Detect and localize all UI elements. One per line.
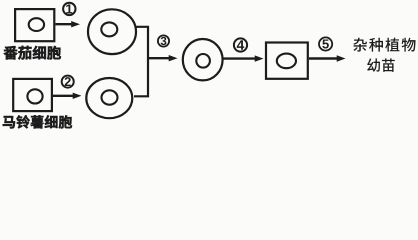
nucleus of fused cell [196,54,210,68]
nucleus of tomato protoplast [101,22,117,36]
fused cell (hybrid protoplast) [183,39,223,80]
step label ③ [158,35,169,46]
arrow ③ induce fusion [148,55,178,61]
box: regenerated hybrid cell [266,43,308,79]
label: hybrid plant 杂种植物 [353,38,415,52]
label: tomato cell 番茄细胞 [4,46,61,60]
protoplast (potato) [86,78,132,118]
label: potato cell 马铃薯细胞 [3,115,72,128]
arrow ⑤ tissue culture [309,55,346,61]
step label ② [62,76,74,88]
label: seedling 幼苗 [367,58,395,72]
nucleus of tomato cell [29,18,44,31]
arrow ① remove cell wall (tomato) [56,21,81,27]
diagram: plant somatic hybridization (tomato x potato) [0,0,418,137]
arrow ④ regenerate cell wall [223,55,264,61]
step label ⑤ [319,37,332,50]
nucleus of potato protoplast [102,90,118,104]
connector: merge lines from both protoplasts [134,27,148,97]
box: potato cell [13,79,52,111]
nucleus of potato cell [27,89,42,103]
protoplast (tomato) [88,9,136,54]
box: tomato cell [15,9,54,41]
arrow ② remove cell wall (potato) [52,93,82,99]
step label ④ [234,38,247,51]
nucleus of hybrid cell [277,54,296,69]
step label ① [63,3,75,15]
